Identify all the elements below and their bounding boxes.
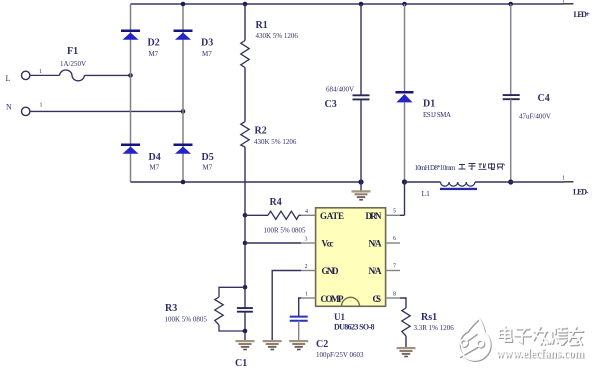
svg-text:R3: R3 xyxy=(165,303,177,314)
capacitor C4 xyxy=(503,4,551,182)
resistor R4 xyxy=(245,197,306,235)
svg-text:www.elecfans.com: www.elecfans.com xyxy=(496,346,584,361)
resistor Rs1 xyxy=(402,308,454,336)
capacitor C2 xyxy=(290,317,364,359)
svg-text:7: 7 xyxy=(393,264,396,270)
wire Rs1 ground stub xyxy=(405,336,407,347)
svg-text:R2: R2 xyxy=(255,126,267,137)
svg-text:DRN: DRN xyxy=(366,211,383,221)
ground bridge xyxy=(352,182,371,201)
wire GND pin to ground xyxy=(272,271,301,341)
wire C1 ground stub xyxy=(244,331,246,340)
wire N to bridge xyxy=(30,103,183,112)
diode D2 xyxy=(121,30,160,59)
pin 1 COMP xyxy=(301,292,316,299)
svg-text:M7: M7 xyxy=(202,50,212,58)
wire R2 down to R4 node xyxy=(244,147,246,215)
wire CS to Rs1 xyxy=(400,298,406,308)
junction fuse node xyxy=(128,73,133,78)
wire L to fuse xyxy=(30,69,60,75)
pin 8 CS xyxy=(386,292,400,299)
svg-text:CS: CS xyxy=(373,294,382,304)
wire COMP to C2 xyxy=(299,298,301,316)
svg-text:430K 5% 1206: 430K 5% 1206 xyxy=(256,32,299,40)
wire top rail xyxy=(131,3,564,5)
svg-text:GATE: GATE xyxy=(320,211,344,221)
junction top rail C4 xyxy=(508,2,513,7)
ground C2 xyxy=(289,340,308,350)
junction R3 bottom xyxy=(243,329,248,334)
wire DRN to switch riser xyxy=(400,214,405,216)
junction R3 top xyxy=(243,285,248,290)
junction C4 bottom xyxy=(508,179,513,184)
svg-text:N: N xyxy=(6,103,12,112)
watermark elecfans logo and text 电子发烧友 (embossed) xyxy=(459,318,584,361)
svg-text:1: 1 xyxy=(39,69,42,75)
resistor R2 xyxy=(241,122,297,147)
svg-text:4: 4 xyxy=(305,209,308,215)
wire switch node to L1 xyxy=(405,181,441,183)
junction top rail C3 xyxy=(359,2,364,7)
inductor L1 xyxy=(415,163,505,198)
svg-text:2: 2 xyxy=(305,264,308,270)
capacitor C1 xyxy=(235,287,253,369)
ground Rs1 xyxy=(397,347,416,357)
svg-text:COMP: COMP xyxy=(321,294,345,304)
svg-text:C1: C1 xyxy=(235,358,247,369)
resistor R1 xyxy=(241,20,299,68)
pin 7 xyxy=(386,264,400,271)
svg-text:R1: R1 xyxy=(256,20,268,31)
svg-text:U1: U1 xyxy=(334,312,345,322)
svg-text:100pF/25V 0603: 100pF/25V 0603 xyxy=(316,351,364,359)
svg-text:F1: F1 xyxy=(67,46,78,57)
svg-text:8: 8 xyxy=(393,292,396,298)
wire R1 to R2 xyxy=(244,68,246,122)
svg-text:5: 5 xyxy=(393,209,396,215)
svg-text:Rs1: Rs1 xyxy=(421,312,437,323)
junction top rail R1 xyxy=(243,2,248,7)
ground C1 xyxy=(236,340,255,350)
junction Vcc node xyxy=(243,241,248,246)
junction D5 bottom xyxy=(181,180,186,185)
svg-text:L1: L1 xyxy=(422,189,431,198)
capacitor C3 xyxy=(325,4,370,182)
svg-text:1A/250V: 1A/250V xyxy=(60,60,86,68)
svg-text:Vcc: Vcc xyxy=(322,239,334,249)
diode D5 xyxy=(174,144,214,172)
wire Vcc node down to R3 top xyxy=(244,243,246,287)
wire Vcc xyxy=(245,242,301,244)
svg-text:M7: M7 xyxy=(150,164,160,172)
junction R4 node xyxy=(243,213,248,218)
ground GND xyxy=(263,340,282,350)
svg-text:1: 1 xyxy=(562,176,565,182)
svg-text:430K 5% 1206: 430K 5% 1206 xyxy=(254,138,297,146)
diode D1 xyxy=(396,4,452,182)
svg-text:M7: M7 xyxy=(149,50,159,58)
svg-text:ES1J SMA: ES1J SMA xyxy=(423,111,451,119)
junction bridge ground node xyxy=(358,179,363,184)
wire DRN riser xyxy=(404,182,406,215)
junction top rail D1 xyxy=(402,2,407,7)
svg-text:100K 5% 0805: 100K 5% 0805 xyxy=(165,316,208,324)
svg-text:LED-: LED- xyxy=(573,188,589,197)
pin 2 GND xyxy=(301,264,316,271)
svg-text:L: L xyxy=(6,74,11,83)
svg-text:C2: C2 xyxy=(316,339,328,350)
watermark url www.elecfans.com xyxy=(496,346,585,362)
svg-text:C4: C4 xyxy=(538,93,550,104)
pin 3 Vcc xyxy=(301,237,316,244)
wire fuse to bridge xyxy=(84,74,130,76)
wire bottom rail xyxy=(131,181,362,183)
diode D4 xyxy=(121,144,161,172)
svg-text:684/400V: 684/400V xyxy=(326,86,354,94)
terminal L xyxy=(6,71,30,83)
junction switch node xyxy=(402,179,407,184)
svg-text:6: 6 xyxy=(393,236,396,242)
wire L1 to LED- xyxy=(475,181,564,183)
junction N node xyxy=(181,109,186,114)
pin 5 DRN xyxy=(386,209,400,216)
svg-text:1: 1 xyxy=(562,0,565,5)
terminal N xyxy=(6,103,30,116)
wire rail to R1 xyxy=(244,4,246,41)
svg-text:100R 5% 0805: 100R 5% 0805 xyxy=(264,227,307,235)
junction top rail D3 xyxy=(181,2,186,7)
diode D3 xyxy=(174,30,214,59)
svg-text:D3: D3 xyxy=(201,38,213,49)
svg-text:R4: R4 xyxy=(270,197,282,208)
fuse F1 xyxy=(60,46,86,81)
wire bridge left vertical xyxy=(130,4,132,182)
svg-text:10mH D8*10mm: 10mH D8*10mm xyxy=(415,164,457,172)
svg-text:DU8623 SO-8: DU8623 SO-8 xyxy=(334,323,375,332)
svg-text:GND: GND xyxy=(322,266,340,276)
svg-text:D1: D1 xyxy=(423,99,435,110)
wire R4 node down to Vcc node xyxy=(244,215,246,243)
svg-text:D2: D2 xyxy=(148,38,160,49)
svg-text:1: 1 xyxy=(305,292,308,298)
pin 1 of LED+ connector xyxy=(562,0,574,5)
svg-text:1: 1 xyxy=(40,103,43,109)
svg-text:D5: D5 xyxy=(202,152,214,163)
svg-text:LED+: LED+ xyxy=(574,10,591,19)
op-amp U1 body xyxy=(316,208,386,332)
svg-text:3.3R 1% 1206: 3.3R 1% 1206 xyxy=(414,324,455,332)
svg-text:C3: C3 xyxy=(325,99,337,110)
svg-text:N/A: N/A xyxy=(369,239,383,249)
resistor R3 xyxy=(165,287,246,331)
svg-text:M7: M7 xyxy=(203,164,213,172)
pin 4 GATE xyxy=(301,209,316,215)
pin 6 xyxy=(386,236,400,243)
svg-text:47uF/400V: 47uF/400V xyxy=(519,113,551,121)
pin 1 of LED- connector xyxy=(562,176,574,182)
svg-text:3: 3 xyxy=(305,237,308,243)
wire bridge middle vertical xyxy=(182,4,184,182)
svg-text:N/A: N/A xyxy=(369,266,383,276)
svg-text:D4: D4 xyxy=(149,152,161,163)
